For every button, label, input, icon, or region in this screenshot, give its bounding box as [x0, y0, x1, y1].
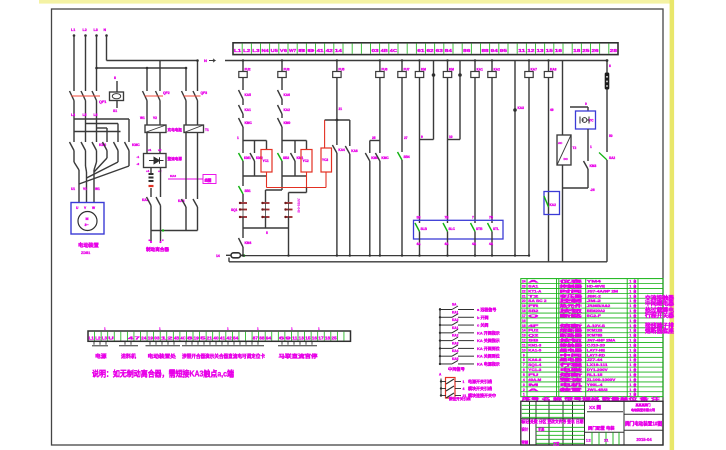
svg-text:1: 1	[590, 145, 592, 149]
svg-text:KA 开阀指示: KA 开阀指示	[477, 329, 500, 335]
svg-text:SB2: SB2	[283, 156, 289, 160]
svg-text:63: 63	[436, 48, 444, 53]
svg-text:12: 12	[522, 339, 526, 343]
svg-text:1: 1	[629, 339, 631, 343]
svg-text:JZ7-44: JZ7-44	[587, 358, 603, 362]
svg-text:说明：如无制动离合器，需短接KA3触点a,c端: 说明：如无制动离合器，需短接KA3触点a,c端	[92, 369, 234, 379]
svg-text:11: 11	[292, 335, 298, 340]
svg-text:U1: U1	[71, 187, 75, 191]
svg-text:03: 03	[154, 335, 160, 340]
svg-text:KT1-A: KT1-A	[528, 289, 541, 293]
svg-text:87: 87	[253, 335, 259, 340]
svg-text:42: 42	[326, 48, 334, 53]
svg-text:设计: 设计	[522, 426, 529, 431]
svg-text:KMC: KMC	[245, 121, 253, 125]
svg-text:12: 12	[527, 48, 535, 53]
svg-text:W7: W7	[289, 48, 297, 53]
svg-text:限位开关引线: 限位开关引线	[449, 396, 471, 401]
svg-text:14: 14	[522, 329, 526, 333]
svg-text:FR: FR	[528, 304, 539, 308]
svg-text:Q2: Q2	[528, 334, 538, 338]
svg-text:95: 95	[500, 48, 508, 53]
svg-text:N: N	[104, 28, 107, 32]
svg-text:SB1: SB1	[245, 189, 251, 193]
svg-text:YC: YC	[589, 119, 594, 123]
svg-text:N4: N4	[261, 48, 269, 53]
svg-text:DY1-200V: DY1-200V	[587, 368, 609, 372]
svg-text:进料机: 进料机	[121, 353, 136, 360]
svg-text:SB2: SB2	[528, 309, 538, 313]
svg-text:4C: 4C	[390, 48, 398, 53]
svg-text:SLB: SLB	[421, 227, 428, 231]
svg-text:15: 15	[522, 324, 526, 328]
svg-text:L2: L2	[95, 335, 101, 340]
svg-text:9: 9	[421, 135, 423, 139]
svg-text:电动装置处: 电动装置处	[148, 353, 178, 360]
svg-text:KM1-3: KM1-3	[528, 343, 541, 347]
svg-text:YM4: YM4	[587, 280, 601, 284]
svg-text:熔断: 熔断	[560, 323, 583, 328]
svg-text:1: 1	[629, 378, 631, 382]
svg-text:0: 0	[585, 102, 587, 106]
svg-text:KA3: KA3	[452, 341, 459, 345]
svg-text:按钮: 按钮	[560, 308, 583, 313]
svg-text:继电器: 继电器	[560, 357, 583, 362]
svg-text:-26: -26	[590, 188, 595, 192]
svg-text:13: 13	[536, 48, 544, 53]
svg-text:W: W	[92, 206, 95, 210]
svg-text:7: 7	[472, 216, 474, 220]
svg-text:1: 1	[629, 368, 631, 372]
svg-text:2: 2	[523, 388, 525, 392]
svg-text:BEM20A2: BEM20A2	[587, 309, 605, 313]
svg-text:50: 50	[609, 134, 613, 138]
svg-text:1: 1	[629, 363, 631, 367]
svg-text:FU: FU	[528, 373, 539, 377]
svg-text:11: 11	[518, 48, 526, 53]
svg-text:v1: v1	[148, 148, 152, 152]
svg-text:3CM78B: 3CM78B	[587, 334, 603, 338]
svg-text:17: 17	[522, 314, 526, 318]
svg-text:SLC: SLC	[449, 227, 456, 231]
svg-text:KA1: KA1	[477, 68, 484, 72]
svg-text:CJ10-20: CJ10-20	[587, 343, 605, 347]
svg-text:KA3: KA3	[170, 174, 176, 178]
svg-text:6: 6	[523, 368, 525, 372]
svg-text:W1: W1	[140, 116, 145, 120]
svg-text:L6: L6	[94, 113, 98, 117]
svg-text:L1: L1	[71, 28, 75, 32]
svg-text:V6: V6	[280, 48, 288, 53]
svg-text:25: 25	[582, 48, 590, 53]
svg-text:KA 开阀到位: KA 开阀到位	[477, 345, 500, 351]
svg-text:阀门配置: 阀门配置	[588, 424, 606, 431]
svg-text:LX19-111: LX19-111	[587, 363, 608, 367]
svg-text:T1: T1	[205, 128, 209, 132]
svg-text:20: 20	[522, 299, 526, 303]
svg-text:M: M	[528, 383, 538, 387]
svg-text:U: U	[108, 335, 113, 340]
svg-text:b 开阀: b 开阀	[477, 314, 489, 320]
svg-text:25: 25	[372, 136, 376, 140]
svg-text:21: 21	[207, 335, 213, 340]
svg-text:8: 8	[523, 358, 525, 362]
svg-text:涉限开合器演示关合器直流电可调定位卡: 涉限开合器演示关合器直流电可调定位卡	[182, 353, 265, 360]
svg-text:86: 86	[463, 48, 471, 53]
svg-text:JW89-048: JW89-048	[297, 198, 301, 213]
svg-text:KM: KM	[421, 68, 426, 72]
svg-text:YC3: YC3	[322, 158, 328, 162]
svg-text:A-10V-S: A-10V-S	[587, 324, 606, 328]
svg-text:40A-M: 40A-M	[528, 378, 541, 382]
svg-text:1: 1	[629, 319, 631, 323]
svg-text:KA1-5: KA1-5	[528, 348, 541, 352]
svg-text:1: 1	[629, 343, 631, 347]
svg-text:KA2: KA2	[452, 334, 459, 338]
svg-text:按钮: 按钮	[560, 338, 583, 343]
svg-text:4: 4	[463, 387, 465, 391]
svg-text:1: 1	[629, 373, 631, 377]
svg-text:JW1-4B/3: JW1-4B/3	[587, 388, 608, 392]
svg-text:88: 88	[259, 335, 265, 340]
svg-text:装置: 装置	[557, 387, 583, 392]
svg-text:62: 62	[426, 48, 434, 53]
svg-text:61: 61	[417, 48, 425, 53]
svg-text:工艺: 工艺	[553, 441, 560, 446]
svg-text:4B: 4B	[174, 335, 180, 340]
svg-text:RL1-15: RL1-15	[587, 373, 603, 377]
svg-text:7D: 7D	[489, 216, 494, 220]
svg-text:8: 8	[114, 76, 116, 80]
svg-text:SA: SA	[452, 303, 457, 307]
svg-text:YC1-3: YC1-3	[528, 368, 541, 372]
svg-text:84: 84	[233, 335, 239, 340]
svg-text:断路器: 断路器	[560, 333, 583, 338]
svg-text:电装: 电装	[606, 424, 615, 431]
svg-text:STB: STB	[476, 227, 483, 231]
svg-text:27: 27	[404, 136, 408, 140]
svg-text:审核: 审核	[522, 439, 529, 444]
svg-text:SA2: SA2	[609, 156, 615, 160]
svg-text:1:2: 1:2	[586, 438, 591, 442]
svg-text:+1: +1	[146, 169, 150, 173]
svg-text:5: 5	[523, 373, 525, 377]
svg-text:模块连接开关中: 模块连接开关中	[468, 392, 496, 398]
svg-text:KM3: KM3	[590, 164, 597, 168]
svg-text:1: 1	[629, 289, 631, 293]
svg-text:U5: U5	[271, 48, 279, 53]
svg-text:1: 1	[629, 358, 631, 362]
svg-text:FU6: FU6	[381, 68, 387, 72]
svg-text:L4: L4	[71, 113, 75, 117]
svg-text:SB4: SB4	[404, 155, 410, 159]
svg-text:V2: V2	[153, 116, 157, 120]
svg-text:SA SC 2: SA SC 2	[528, 299, 546, 303]
svg-text:SB: SB	[528, 339, 539, 343]
svg-text:1: 1	[629, 348, 631, 352]
svg-text:KA8: KA8	[351, 149, 358, 153]
svg-text:L2: L2	[83, 28, 87, 32]
svg-text:18: 18	[325, 335, 331, 340]
svg-text:T2: T2	[528, 294, 538, 298]
svg-text:变压器: 变压器	[560, 293, 583, 298]
svg-text:KA2: KA2	[550, 203, 557, 207]
svg-text:c 关阀: c 关阀	[477, 322, 488, 328]
svg-text:1: 1	[629, 324, 631, 328]
svg-text:模块开关引线: 模块开关引线	[468, 385, 492, 391]
svg-text:23: 23	[522, 284, 526, 288]
svg-text:LAY7-NE: LAY7-NE	[587, 348, 606, 352]
svg-text:1: 1	[629, 280, 631, 284]
svg-text:9: 9	[307, 48, 315, 53]
svg-text:Y90L-4: Y90L-4	[587, 383, 603, 387]
svg-text:88: 88	[481, 48, 489, 53]
svg-text:L1: L1	[89, 335, 95, 340]
svg-text:继电器: 继电器	[560, 347, 583, 352]
svg-text:KA 关阀到位: KA 关阀到位	[477, 353, 500, 359]
svg-text:10: 10	[522, 348, 526, 352]
svg-text:QF3: QF3	[201, 91, 208, 95]
svg-text:KM: KM	[449, 68, 454, 72]
svg-text:26: 26	[591, 48, 599, 53]
svg-text:W1: W1	[95, 187, 100, 191]
svg-text:1: 1	[629, 383, 631, 387]
svg-text:电源: 电源	[95, 353, 107, 360]
svg-text:KM0: KM0	[284, 121, 291, 125]
svg-text:5: 5	[266, 231, 268, 235]
svg-text:STL: STL	[493, 227, 499, 231]
svg-text:KA 电源指示: KA 电源指示	[477, 360, 500, 366]
svg-text:KA2: KA2	[452, 318, 459, 322]
svg-text:13: 13	[299, 335, 305, 340]
svg-text:控制器: 控制器	[560, 283, 583, 288]
svg-text:v2: v2	[158, 148, 162, 152]
svg-text:L3: L3	[102, 335, 108, 340]
svg-text:KM1: KM1	[244, 156, 251, 160]
svg-text:KA7: KA7	[531, 68, 538, 72]
svg-text:41: 41	[220, 335, 226, 340]
svg-text:1: 1	[629, 304, 631, 308]
svg-text:25: 25	[331, 335, 337, 340]
svg-text:整流: 整流	[557, 377, 583, 382]
svg-text:21: 21	[522, 294, 526, 298]
svg-text:4C: 4C	[181, 335, 187, 340]
svg-text:19: 19	[148, 335, 154, 340]
svg-text:KA4: KA4	[452, 349, 459, 353]
svg-text:19: 19	[194, 335, 200, 340]
svg-text:49: 49	[550, 108, 554, 112]
svg-text:阀门电动装置1#图: 阀门电动装置1#图	[625, 420, 662, 427]
svg-text:王某: 王某	[538, 426, 545, 431]
svg-text:熔断: 熔断	[560, 372, 583, 377]
svg-text:FU3: FU3	[284, 68, 290, 72]
svg-text:94: 94	[491, 48, 499, 53]
svg-text:XX 阀: XX 阀	[589, 404, 601, 411]
svg-text:HD-40VE: HD-40VE	[587, 284, 606, 288]
svg-text:4A: 4A	[445, 242, 450, 246]
svg-text:KMC: KMC	[132, 143, 140, 147]
svg-text:a 远程信号: a 远程信号	[477, 306, 496, 312]
svg-text:13: 13	[522, 334, 526, 338]
svg-text:KM4: KM4	[245, 241, 252, 245]
svg-text:24: 24	[522, 280, 526, 284]
svg-text:熔断器底座: 熔断器底座	[645, 327, 675, 335]
svg-text:17: 17	[318, 335, 324, 340]
svg-text:18: 18	[573, 48, 581, 53]
svg-text:断路: 断路	[560, 313, 583, 318]
svg-text:14: 14	[216, 254, 220, 258]
svg-text:T2: T2	[573, 146, 577, 150]
svg-text:行程: 行程	[557, 362, 583, 367]
svg-text:14: 14	[335, 48, 343, 53]
svg-text:KA5: KA5	[452, 357, 459, 361]
svg-text:JBK-2: JBK-2	[587, 294, 601, 298]
svg-text:JS7-4A/9P 2M: JS7-4A/9P 2M	[587, 289, 618, 293]
svg-text:M: M	[86, 217, 89, 221]
svg-text:中间信号: 中间信号	[448, 366, 465, 373]
svg-text:时间: 时间	[560, 288, 583, 293]
svg-text:1: 1	[237, 136, 239, 140]
svg-text:8: 8	[609, 64, 611, 68]
svg-text:KA 关阀指示: KA 关阀指示	[477, 337, 500, 343]
svg-text:-2: -2	[137, 162, 140, 166]
svg-text:V1: V1	[83, 187, 87, 191]
svg-text:L3: L3	[94, 28, 98, 32]
svg-text:A: A	[528, 388, 539, 392]
svg-text:A: A	[528, 280, 539, 284]
svg-text:7: 7	[523, 363, 525, 367]
svg-text:S6: S6	[417, 216, 421, 220]
svg-text:KA2: KA2	[284, 108, 291, 112]
svg-text:4A: 4A	[417, 242, 422, 246]
svg-text:SQ1: SQ1	[231, 208, 238, 212]
svg-text:电磁: 电磁	[560, 367, 583, 372]
svg-text:41: 41	[316, 48, 324, 53]
svg-text:5C2-F: 5C2-F	[587, 314, 602, 318]
svg-text:KA1: KA1	[452, 310, 459, 314]
svg-text:9: 9	[523, 353, 525, 357]
svg-text:03: 03	[371, 48, 379, 53]
svg-text:KA1: KA1	[245, 108, 252, 112]
svg-text:3: 3	[523, 383, 525, 387]
svg-text:行程开关器: 行程开关器	[644, 312, 675, 320]
svg-text:YC2: YC2	[303, 159, 309, 163]
svg-text:24: 24	[141, 335, 147, 340]
svg-text:3~: 3~	[85, 223, 89, 227]
svg-text:FU5: FU5	[338, 68, 344, 72]
svg-text:电动装置: 电动装置	[78, 241, 99, 249]
svg-text:JN7-4NF 2MA: JN7-4NF 2MA	[587, 339, 616, 343]
svg-text:-1: -1	[137, 155, 140, 159]
svg-text:1: 1	[629, 309, 631, 313]
svg-text:L3: L3	[252, 48, 260, 53]
svg-text:84: 84	[445, 48, 453, 53]
svg-text:某某某阀门: 某某某阀门	[635, 402, 650, 407]
svg-text:1: 1	[629, 284, 631, 288]
svg-text:7B: 7B	[445, 216, 450, 220]
svg-text:JR36B/A&2: JR36B/A&2	[587, 304, 610, 308]
svg-text:4A: 4A	[489, 242, 494, 246]
svg-text:S1: S1	[113, 109, 117, 113]
svg-text:N: N	[204, 58, 207, 63]
svg-text:KA5: KA5	[245, 93, 252, 97]
svg-text:KA4: KA4	[338, 148, 345, 152]
svg-text:KMC: KMC	[381, 156, 389, 160]
svg-text:16: 16	[522, 319, 526, 323]
svg-text:L2: L2	[243, 48, 251, 53]
svg-text:94: 94	[266, 335, 272, 340]
svg-text:8: 8	[298, 48, 306, 53]
svg-text:中间: 中间	[560, 352, 583, 357]
svg-text:QF2: QF2	[163, 91, 170, 95]
svg-text:42: 42	[226, 335, 232, 340]
svg-text:1: 1	[629, 353, 631, 357]
svg-text:FU7: FU7	[404, 68, 410, 72]
svg-text:QF1: QF1	[99, 100, 106, 104]
svg-text:1/1: 1/1	[604, 438, 609, 442]
svg-text:SA1: SA1	[528, 284, 538, 288]
svg-text:10: 10	[449, 135, 453, 139]
svg-text:1: 1	[629, 294, 631, 298]
svg-text:制动离合器: 制动离合器	[146, 246, 169, 253]
svg-text:4A: 4A	[472, 242, 477, 246]
svg-text:LAY7-RD: LAY7-RD	[587, 353, 606, 357]
svg-text:L1: L1	[234, 48, 242, 53]
svg-text:11: 11	[522, 343, 526, 347]
svg-text:接触器: 接触器	[558, 342, 583, 347]
svg-text:1: 1	[629, 314, 631, 318]
svg-text:15: 15	[546, 48, 554, 53]
svg-text:电源开关引线: 电源开关引线	[468, 378, 492, 384]
svg-text:1: 1	[629, 388, 631, 392]
svg-text:YC1: YC1	[263, 159, 269, 163]
svg-text:线圈: 线圈	[205, 178, 212, 183]
svg-text:电机: 电机	[560, 382, 583, 387]
svg-text:KA8: KA8	[550, 68, 557, 72]
svg-text:KA2: KA2	[494, 68, 501, 72]
svg-text:ZL100-1000V: ZL100-1000V	[587, 378, 616, 382]
svg-text:4B: 4B	[381, 48, 389, 53]
svg-text:3CM12B: 3CM12B	[587, 329, 603, 333]
svg-text:热元件: 热元件	[560, 303, 583, 308]
svg-text:标记 处数 分区 更改文件号 签名 日期: 标记 处数 分区 更改文件号 签名 日期	[521, 418, 584, 424]
svg-text:马联直流官停: 马联直流官停	[279, 353, 318, 360]
svg-text:4: 4	[523, 378, 525, 382]
svg-text:KA3: KA3	[518, 106, 525, 110]
svg-text:FU2: FU2	[528, 329, 538, 333]
svg-text:中间继电器: 中间继电器	[645, 300, 675, 308]
svg-text:充电电阻: 充电电阻	[168, 127, 183, 132]
svg-text:15: 15	[305, 335, 311, 340]
svg-text:熔断器: 熔断器	[560, 328, 583, 333]
svg-text:KA6-8: KA6-8	[528, 358, 541, 362]
svg-text:1: 1	[463, 380, 465, 384]
svg-text:KA6: KA6	[284, 93, 291, 97]
svg-text:ZD51: ZD51	[81, 251, 90, 255]
svg-text:KA1: KA1	[452, 326, 459, 330]
svg-text:28: 28	[610, 48, 618, 53]
svg-text:21: 21	[339, 107, 343, 111]
svg-text:22: 22	[522, 289, 526, 293]
svg-text:JM-2: JM-2	[587, 299, 601, 303]
svg-text:电动装置有限公司: 电动装置有限公司	[631, 407, 655, 412]
svg-text:1: 1	[629, 334, 631, 338]
svg-text:仪表: 仪表	[557, 279, 583, 284]
svg-text:40: 40	[213, 335, 219, 340]
svg-text:控制: 控制	[560, 298, 583, 303]
svg-text:18: 18	[522, 309, 526, 313]
svg-text:L5: L5	[83, 113, 87, 117]
